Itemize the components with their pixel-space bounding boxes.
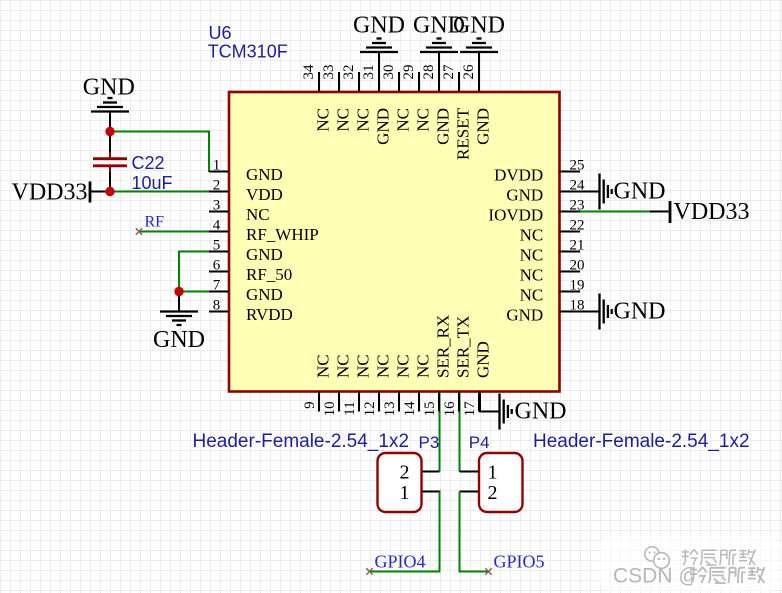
svg-text:1: 1	[488, 462, 498, 484]
svg-text:4: 4	[213, 218, 221, 234]
svg-text:8: 8	[213, 298, 221, 314]
svg-text:1: 1	[213, 158, 221, 174]
svg-text:18: 18	[570, 298, 585, 314]
svg-text:20: 20	[570, 258, 585, 274]
svg-text:29: 29	[401, 65, 417, 80]
svg-text:11: 11	[342, 401, 358, 415]
svg-text:VDD: VDD	[246, 185, 283, 204]
svg-text:15: 15	[422, 401, 438, 416]
svg-text:SER_RX: SER_RX	[434, 315, 453, 378]
svg-text:U6: U6	[209, 23, 232, 43]
svg-text:12: 12	[362, 401, 378, 416]
svg-text:GND: GND	[246, 285, 283, 304]
svg-text:RESET: RESET	[454, 107, 473, 160]
svg-text:NC: NC	[414, 108, 433, 132]
svg-text:VDD33: VDD33	[12, 180, 88, 206]
svg-text:34: 34	[301, 64, 317, 80]
svg-text:GPIO4: GPIO4	[375, 552, 426, 572]
svg-text:NC: NC	[520, 266, 544, 285]
svg-text:GPIO5: GPIO5	[494, 552, 545, 572]
svg-text:32: 32	[341, 65, 357, 80]
svg-text:7: 7	[213, 278, 221, 294]
svg-text:28: 28	[421, 65, 437, 80]
svg-text:RF_50: RF_50	[246, 265, 292, 284]
svg-text:16: 16	[442, 401, 458, 417]
svg-text:P3: P3	[419, 433, 440, 452]
svg-text:RF_WHIP: RF_WHIP	[246, 225, 319, 244]
svg-text:19: 19	[570, 278, 585, 294]
svg-text:CSDN @: CSDN @	[613, 565, 700, 588]
svg-text:30: 30	[381, 65, 397, 80]
svg-text:33: 33	[321, 65, 337, 80]
svg-text:9: 9	[302, 401, 318, 409]
svg-text:3: 3	[213, 198, 221, 214]
svg-text:GND: GND	[474, 108, 493, 145]
svg-text:23: 23	[570, 198, 585, 214]
svg-text:GND: GND	[374, 108, 393, 145]
svg-text:NC: NC	[314, 108, 333, 132]
svg-text:GND: GND	[515, 399, 567, 425]
svg-text:21: 21	[570, 238, 585, 254]
svg-text:1: 1	[400, 482, 410, 504]
svg-text:NC: NC	[520, 226, 544, 245]
svg-text:24: 24	[570, 178, 586, 194]
svg-text:5: 5	[213, 238, 221, 254]
svg-text:IOVDD: IOVDD	[488, 206, 543, 225]
svg-text:13: 13	[382, 401, 398, 416]
svg-text:17: 17	[462, 401, 478, 417]
svg-text:NC: NC	[374, 354, 393, 378]
svg-text:C22: C22	[132, 153, 165, 173]
svg-text:22: 22	[570, 218, 585, 234]
svg-text:GND: GND	[614, 179, 666, 205]
svg-text:6: 6	[213, 258, 221, 274]
svg-text:RF: RF	[145, 214, 165, 231]
svg-text:NC: NC	[246, 205, 270, 224]
svg-text:GND: GND	[474, 341, 493, 378]
svg-text:25: 25	[570, 158, 585, 174]
svg-text:NC: NC	[394, 108, 413, 132]
svg-text:2: 2	[213, 178, 221, 194]
svg-text:GND: GND	[246, 165, 283, 184]
svg-text:Header-Female-2.54_1x2: Header-Female-2.54_1x2	[193, 431, 410, 452]
svg-text:14: 14	[402, 401, 418, 417]
svg-text:NC: NC	[354, 354, 373, 378]
svg-text:TCM310F: TCM310F	[208, 42, 288, 62]
svg-text:31: 31	[361, 65, 377, 80]
svg-text:DVDD: DVDD	[494, 166, 543, 185]
svg-text:GND: GND	[153, 327, 205, 353]
svg-text:GND: GND	[246, 245, 283, 264]
svg-text:VDD33: VDD33	[674, 199, 750, 225]
svg-text:GND: GND	[434, 108, 453, 145]
svg-text:2: 2	[400, 462, 410, 484]
svg-text:NC: NC	[354, 108, 373, 132]
svg-text:NC: NC	[414, 354, 433, 378]
svg-text:GND: GND	[506, 306, 543, 325]
svg-text:NC: NC	[394, 354, 413, 378]
svg-text:10uF: 10uF	[132, 173, 173, 193]
svg-text:P4: P4	[469, 433, 490, 452]
svg-text:GND: GND	[83, 74, 135, 100]
svg-text:NC: NC	[520, 286, 544, 305]
svg-text:SER_TX: SER_TX	[454, 316, 473, 378]
svg-text:NC: NC	[314, 354, 333, 378]
svg-text:2: 2	[488, 482, 498, 504]
svg-text:GND: GND	[353, 13, 405, 39]
svg-text:NC: NC	[520, 246, 544, 265]
svg-text:GND: GND	[506, 186, 543, 205]
svg-text:Header-Female-2.54_1x2: Header-Female-2.54_1x2	[533, 431, 750, 452]
svg-text:27: 27	[441, 64, 457, 80]
svg-text:NC: NC	[334, 354, 353, 378]
svg-text:RVDD: RVDD	[246, 305, 293, 324]
svg-text:GND: GND	[614, 299, 666, 325]
svg-text:10: 10	[322, 401, 338, 416]
svg-text:NC: NC	[334, 108, 353, 132]
svg-text:GND: GND	[453, 13, 505, 39]
svg-text:26: 26	[461, 64, 477, 80]
